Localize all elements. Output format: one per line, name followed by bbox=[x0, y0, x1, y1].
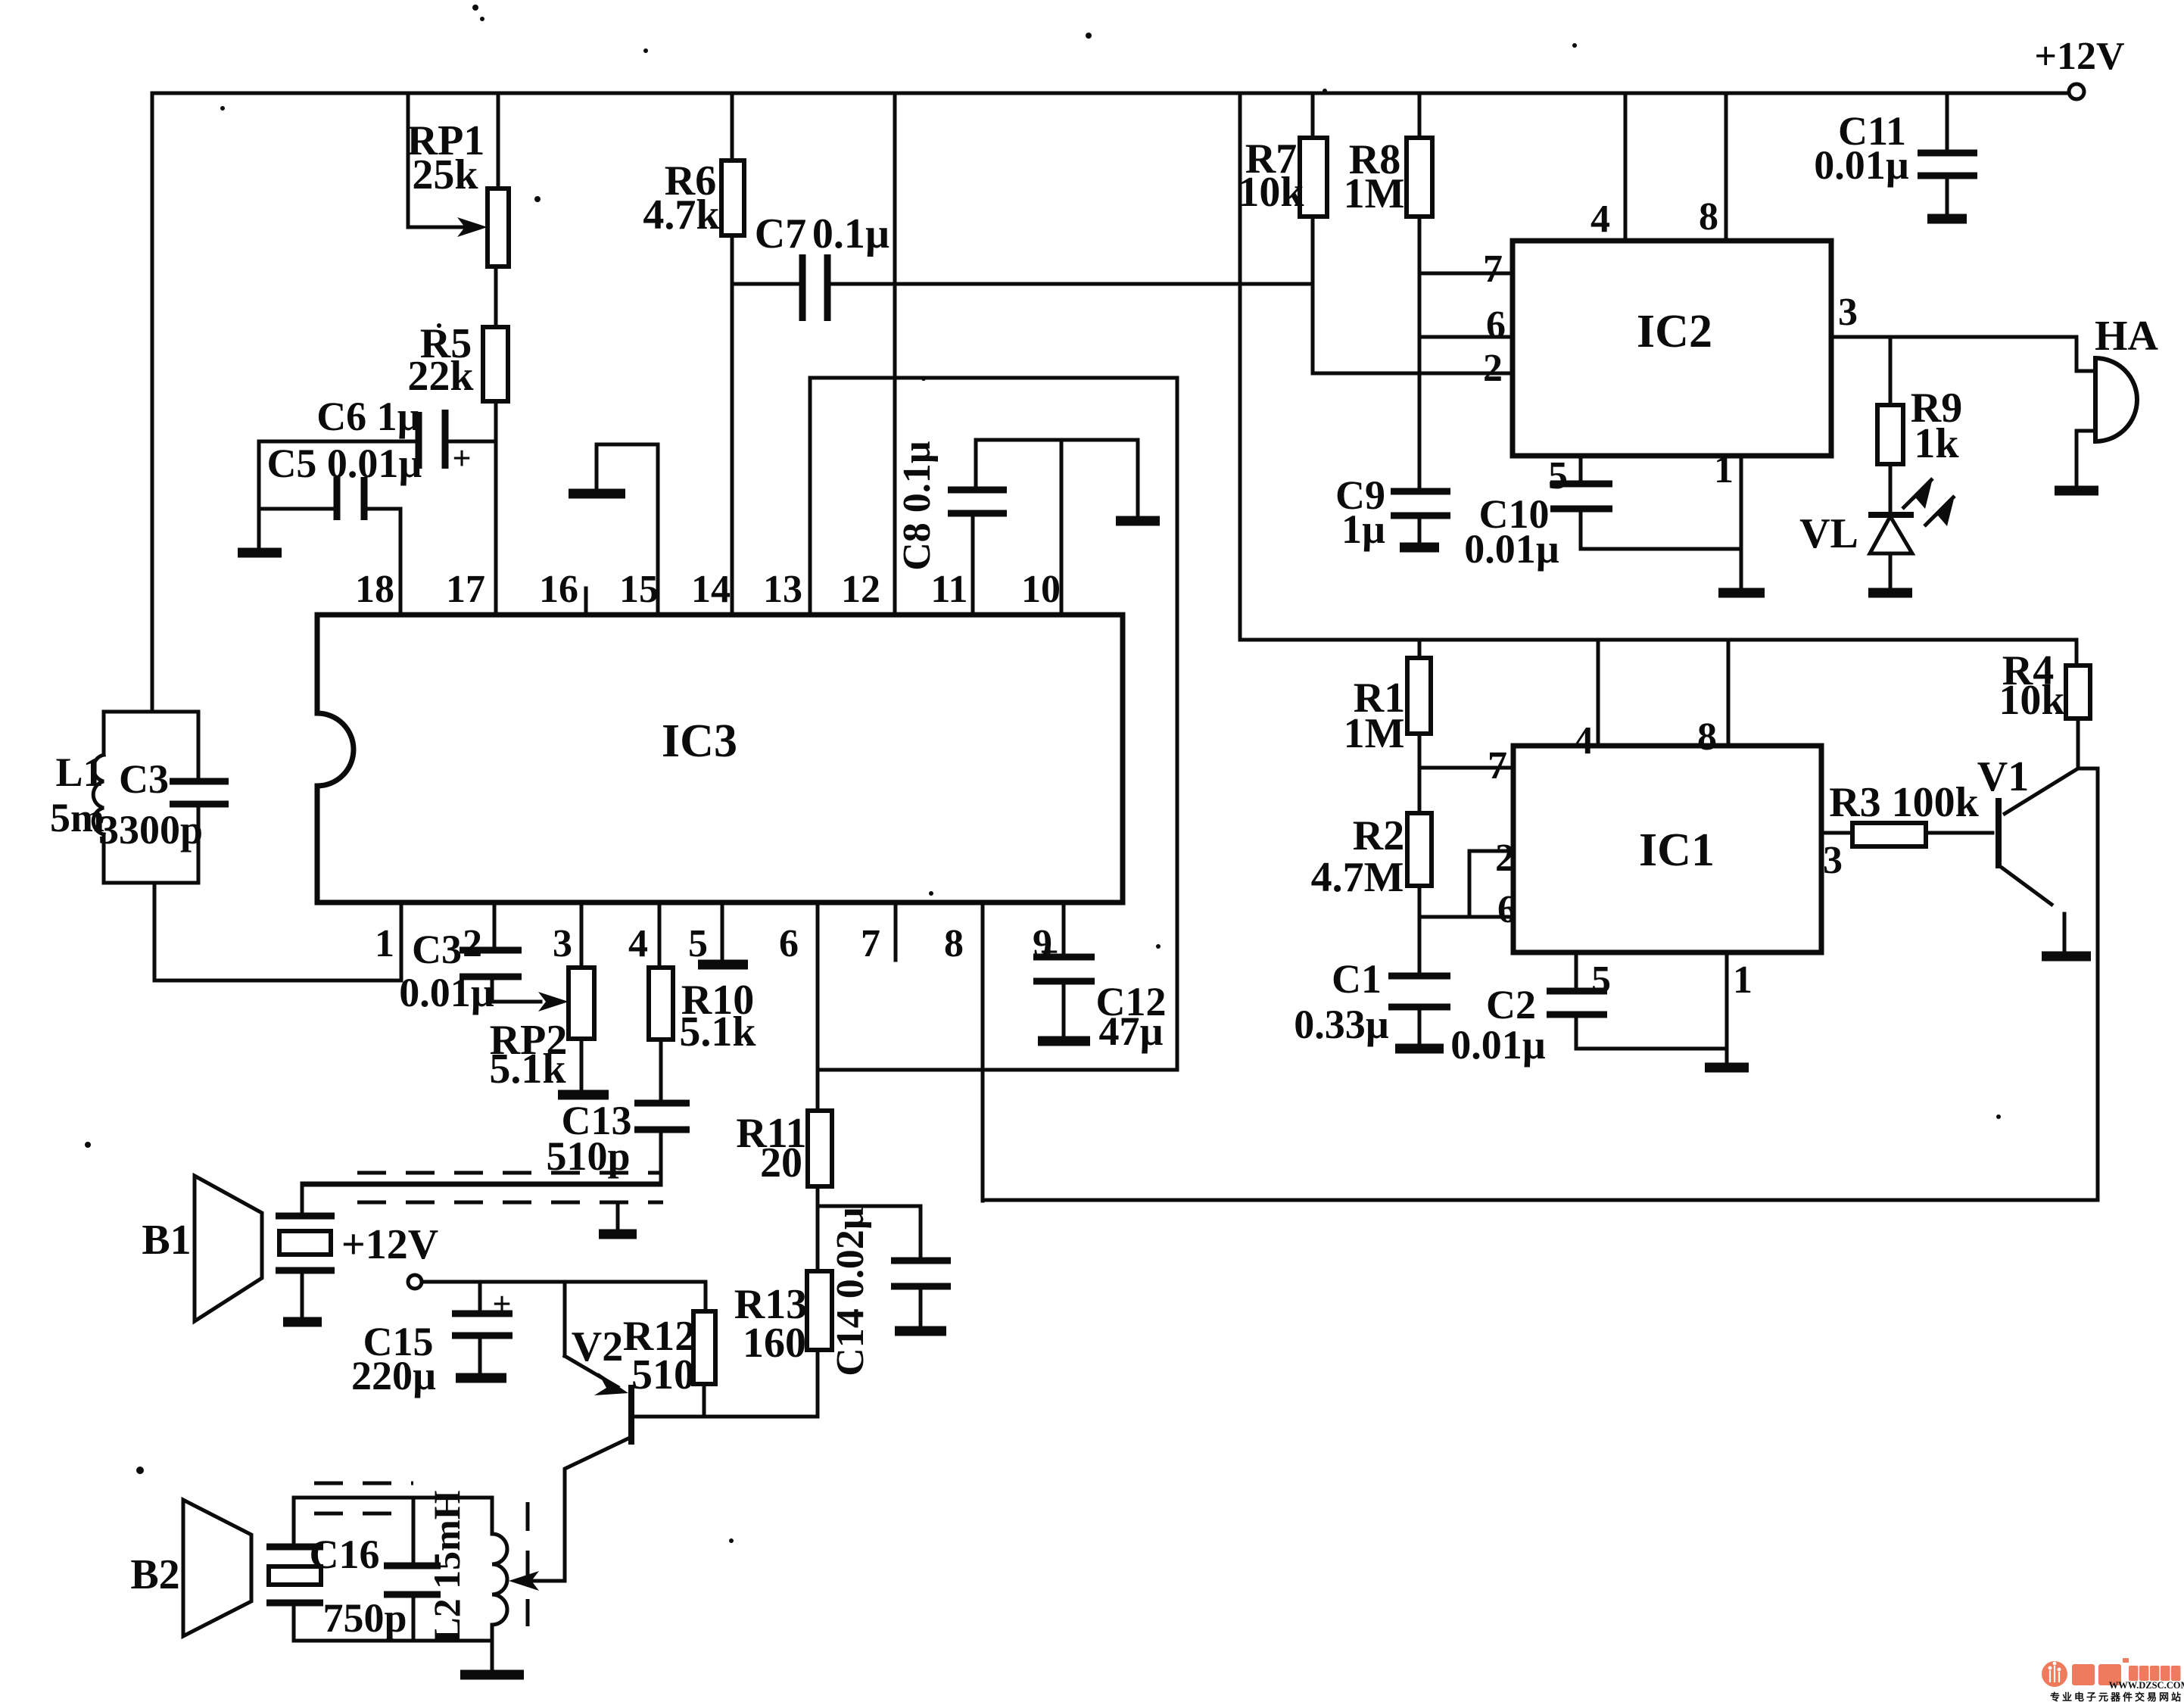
svg-text:1: 1 bbox=[1714, 448, 1734, 491]
svg-text:47µ: 47µ bbox=[1098, 1008, 1163, 1054]
svg-text:20: 20 bbox=[760, 1139, 802, 1186]
svg-text:C6 1µ: C6 1µ bbox=[316, 394, 421, 439]
svg-text:0.1µ: 0.1µ bbox=[812, 210, 889, 257]
svg-text:C8 0.1µ: C8 0.1µ bbox=[896, 441, 939, 571]
svg-text:L1: L1 bbox=[55, 750, 103, 795]
svg-text:V1: V1 bbox=[1977, 753, 2029, 800]
svg-text:C14 0.02µ: C14 0.02µ bbox=[829, 1207, 872, 1376]
svg-text:0.01µ: 0.01µ bbox=[399, 970, 494, 1015]
svg-text:15: 15 bbox=[619, 568, 659, 611]
svg-text:5.1k: 5.1k bbox=[489, 1046, 566, 1093]
svg-text:专业电子元器件交易网站: 专业电子元器件交易网站 bbox=[2050, 1691, 2183, 1702]
svg-text:C2: C2 bbox=[1486, 982, 1536, 1027]
svg-text:IC1: IC1 bbox=[1639, 825, 1715, 876]
svg-text:R2: R2 bbox=[1353, 812, 1404, 859]
svg-text:10k: 10k bbox=[1999, 677, 2065, 724]
svg-text:6: 6 bbox=[1486, 304, 1506, 347]
svg-text:1: 1 bbox=[1733, 959, 1752, 1002]
svg-text:6: 6 bbox=[779, 922, 799, 965]
svg-text:0.01µ: 0.01µ bbox=[1814, 142, 1909, 188]
svg-text:510p: 510p bbox=[546, 1133, 630, 1179]
svg-text:+12V: +12V bbox=[341, 1221, 438, 1268]
svg-text:17: 17 bbox=[446, 568, 485, 611]
svg-text:R3 100k: R3 100k bbox=[1829, 779, 1979, 826]
svg-text:3: 3 bbox=[1823, 839, 1843, 882]
svg-text:5m: 5m bbox=[50, 795, 104, 840]
svg-text:5.1k: 5.1k bbox=[679, 1008, 756, 1055]
svg-text:0.33µ: 0.33µ bbox=[1294, 1002, 1389, 1047]
svg-text:4: 4 bbox=[1590, 198, 1610, 241]
svg-text:14: 14 bbox=[691, 568, 731, 611]
svg-text:12: 12 bbox=[841, 568, 880, 611]
svg-text:4: 4 bbox=[1574, 719, 1594, 762]
svg-text:8: 8 bbox=[1697, 715, 1717, 759]
svg-text:1M: 1M bbox=[1344, 710, 1405, 757]
svg-text:VL: VL bbox=[1799, 510, 1858, 557]
svg-text:+: + bbox=[1039, 934, 1058, 971]
svg-text:11: 11 bbox=[930, 568, 967, 611]
svg-text:0.01µ: 0.01µ bbox=[1450, 1022, 1546, 1068]
svg-text:5: 5 bbox=[688, 922, 708, 965]
svg-text:HA: HA bbox=[2095, 313, 2159, 360]
svg-text:C7: C7 bbox=[755, 210, 806, 257]
svg-text:WWW.DZSC.COM: WWW.DZSC.COM bbox=[2109, 1680, 2184, 1691]
svg-text:4.7M: 4.7M bbox=[1311, 854, 1404, 901]
svg-text:0.01µ: 0.01µ bbox=[1464, 526, 1559, 572]
svg-text:2: 2 bbox=[1495, 837, 1515, 880]
svg-text:V2: V2 bbox=[572, 1323, 623, 1370]
svg-text:7: 7 bbox=[1488, 744, 1507, 787]
svg-text:IC2: IC2 bbox=[1637, 306, 1712, 357]
svg-text:750p: 750p bbox=[322, 1595, 407, 1641]
svg-text:4: 4 bbox=[628, 922, 648, 965]
svg-text:C3: C3 bbox=[119, 756, 169, 802]
svg-text:5: 5 bbox=[1591, 959, 1611, 1002]
svg-text:10k: 10k bbox=[1238, 169, 1304, 216]
svg-text:+: + bbox=[452, 440, 471, 477]
svg-text:C3: C3 bbox=[412, 927, 462, 972]
svg-text:1k: 1k bbox=[1914, 420, 1959, 467]
svg-text:3: 3 bbox=[553, 922, 572, 965]
svg-text:18: 18 bbox=[355, 568, 394, 611]
svg-text:5: 5 bbox=[1548, 454, 1568, 497]
svg-text:160: 160 bbox=[743, 1320, 806, 1367]
svg-text:+: + bbox=[492, 1286, 511, 1323]
svg-text:220µ: 220µ bbox=[351, 1353, 436, 1398]
svg-text:6: 6 bbox=[1497, 888, 1517, 931]
svg-text:22k: 22k bbox=[407, 353, 474, 400]
svg-text:1M: 1M bbox=[1344, 170, 1405, 217]
svg-text:1µ: 1µ bbox=[1341, 507, 1385, 552]
svg-text:4.7k: 4.7k bbox=[643, 192, 720, 238]
svg-text:B2: B2 bbox=[130, 1551, 179, 1598]
svg-text:16: 16 bbox=[539, 568, 578, 611]
svg-text:2: 2 bbox=[1483, 347, 1503, 390]
svg-text:13: 13 bbox=[763, 568, 802, 611]
svg-text:10: 10 bbox=[1021, 568, 1061, 611]
svg-text:+12V: +12V bbox=[2034, 35, 2124, 78]
svg-text:7: 7 bbox=[1483, 248, 1503, 291]
svg-text:C5 0.01µ: C5 0.01µ bbox=[266, 441, 422, 486]
svg-text:2: 2 bbox=[463, 922, 482, 965]
svg-text:8: 8 bbox=[944, 922, 964, 965]
svg-text:L2 15mH: L2 15mH bbox=[425, 1490, 468, 1643]
svg-text:8: 8 bbox=[1699, 195, 1718, 238]
svg-text:3300p: 3300p bbox=[98, 807, 203, 853]
svg-text:7: 7 bbox=[861, 922, 880, 965]
svg-text:3: 3 bbox=[1838, 291, 1858, 334]
svg-text:B1: B1 bbox=[142, 1217, 191, 1264]
svg-text:1: 1 bbox=[375, 922, 394, 965]
svg-text:C1: C1 bbox=[1332, 956, 1382, 1002]
svg-text:510: 510 bbox=[631, 1351, 695, 1398]
svg-text:IC3: IC3 bbox=[662, 715, 737, 767]
svg-text:25k: 25k bbox=[412, 151, 478, 198]
